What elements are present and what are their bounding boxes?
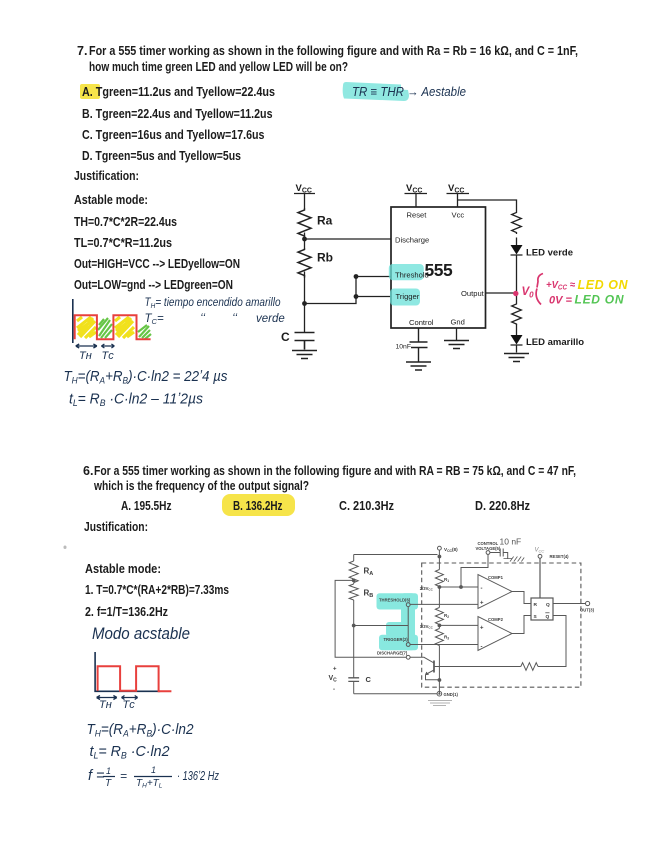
svg-text:CONTROL: CONTROL (478, 541, 499, 546)
svg-text:Q: Q (546, 614, 550, 620)
cyan highlight Trigger pin (390, 289, 420, 306)
ext wire node to tie (354, 625, 409, 627)
svg-text:TRIGGER(2): TRIGGER(2) (384, 637, 409, 642)
transistor emitter with arrow (426, 670, 435, 675)
svg-text:GND(1): GND(1) (444, 692, 459, 697)
svg-text:1: 1 (151, 765, 156, 775)
capacitor C (295, 333, 315, 350)
junction dot 2/3 (438, 585, 442, 589)
wire 2/3 node down to R2 (438, 587, 440, 608)
svg-text:TH= tiempo encendido amarillo: TH= tiempo encendido amarillo (145, 297, 282, 310)
resistor R2 (435, 608, 443, 625)
svg-text:VC: VC (329, 675, 338, 684)
svg-text:TH=(RA+RB)·C·ln2: TH=(RA+RB)·C·ln2 (87, 722, 194, 739)
Vcc supply symbol above Reset (405, 194, 428, 208)
svg-text:VCC: VCC (296, 183, 312, 195)
wire trigger (356, 296, 391, 298)
wire junction to threshold/trigger (305, 277, 357, 304)
svg-text:VCC: VCC (535, 548, 545, 554)
tiny note lines under GND (428, 701, 452, 706)
svg-text:Tс: Tс (102, 350, 115, 362)
svg-text:R3: R3 (444, 635, 449, 641)
discharge pin circle (406, 655, 410, 659)
resistor Rb (298, 248, 311, 278)
wire R1 to 2/3 node (438, 586, 440, 589)
Vcc pin circle (438, 546, 442, 550)
svg-text:Control: Control (409, 318, 434, 327)
svg-text:V0: V0 (522, 286, 535, 300)
svg-text:+: + (480, 626, 484, 632)
ground below C (292, 351, 317, 359)
svg-text:COMP1: COMP1 (488, 575, 504, 580)
wire Ra to Rb (304, 233, 306, 249)
svg-text:C: C (281, 330, 290, 344)
svg-text:THRESHOLD(6): THRESHOLD(6) (379, 597, 411, 602)
svg-text:Rb: Rb (317, 251, 333, 265)
GND pin (437, 691, 442, 696)
reset wire to FF (539, 558, 541, 598)
top rail (354, 554, 438, 556)
svg-text:10nF: 10nF (396, 344, 412, 351)
capacitor C bottom circuit (348, 678, 359, 682)
svg-text:+: + (480, 601, 484, 607)
svg-text:+VCC ≈: +VCC ≈ (546, 279, 575, 292)
printed text (77, 45, 87, 58)
wire node to C (353, 626, 355, 678)
wire resistor to base (435, 666, 521, 668)
555 IC box U1 (391, 207, 486, 328)
output node (486, 292, 517, 294)
waveform q7 TL arrow (101, 344, 114, 348)
svg-text:1: 1 (106, 766, 111, 776)
waveform q7 green scribble 1 (98, 318, 112, 338)
resistor top right (512, 211, 522, 234)
wire (353, 583, 355, 584)
Vcc supply symbol above Vcc pin (447, 194, 470, 208)
svg-text:RA: RA (364, 567, 374, 578)
svg-text:Ra: Ra (317, 214, 333, 228)
svg-text:1/3VCC: 1/3VCC (420, 624, 434, 630)
junction dot 1/3 (438, 624, 442, 628)
svg-text:VCC: VCC (406, 183, 422, 195)
resistor RA (349, 561, 358, 583)
svg-text:-: - (481, 586, 483, 592)
rail to LED branch (458, 200, 517, 211)
svg-text:Vcc: Vcc (452, 211, 465, 220)
svg-text:T: T (105, 778, 112, 789)
wire output to lower resistor (516, 293, 518, 303)
waveform q7 green scribble 2 (138, 325, 151, 339)
svg-text:LED ON: LED ON (575, 293, 624, 307)
svg-text:TR ≡ THR → Aestable: TR ≡ THR → Aestable (352, 85, 466, 99)
junction dot threshold node (352, 624, 356, 628)
svg-text:R1: R1 (444, 577, 449, 583)
resistor lower right (512, 303, 522, 325)
svg-text:Threshold: Threshold (395, 270, 429, 279)
Q output wire (553, 603, 585, 605)
wire to LED verde (516, 238, 518, 246)
svg-text:Reset: Reset (407, 211, 428, 220)
svg-text:0V =: 0V = (549, 295, 573, 307)
svg-text:Discharge: Discharge (395, 236, 429, 245)
waveform q6 TL arrow (122, 696, 138, 700)
waveform q6 TH arrow (97, 696, 117, 700)
waveform q7 yellow scribble 1 (77, 317, 96, 338)
LED verde D1 (511, 245, 523, 255)
svg-text:S: S (534, 614, 538, 620)
svg-text:+: + (333, 667, 337, 673)
svg-text:Q: Q (546, 602, 550, 608)
tie line threshold-trigger (407, 607, 409, 643)
red brace (536, 274, 543, 305)
ground below LED amarillo (504, 354, 529, 362)
svg-text:R2: R2 (444, 613, 449, 619)
wire R3 to emitter node (438, 646, 440, 694)
cyan highlight threshold-trigger path (377, 593, 419, 650)
junction dot Vcc (438, 555, 442, 559)
Vcc supply symbol left (294, 194, 315, 209)
wire to Discharge pin (305, 238, 392, 240)
threshold pin circle (406, 603, 410, 607)
waveform q7 axis (72, 299, 74, 343)
transistor collector (410, 657, 434, 663)
control cap ground hatch (504, 557, 525, 562)
control pin capacitor 10nF (410, 328, 428, 362)
yellow highlight option A (80, 84, 100, 99)
gnd pin ground (456, 328, 458, 340)
wire threshold (356, 276, 391, 278)
ground below control cap (406, 362, 431, 370)
transistor Q1 base bar (433, 661, 435, 673)
node trigger (354, 294, 359, 299)
svg-text:C: C (366, 675, 372, 684)
svg-text:LED amarillo: LED amarillo (526, 337, 584, 348)
wire R2 to 1/3 node (438, 624, 440, 627)
svg-text:2/3VCC: 2/3VCC (420, 586, 434, 592)
svg-text:=: = (120, 769, 127, 783)
svg-text:tL= RB ·C·ln2: tL= RB ·C·ln2 (90, 744, 170, 761)
junction dot RA-RB (352, 579, 356, 583)
flip-flop box (531, 598, 553, 620)
node trigger junction (302, 301, 307, 306)
svg-text:Trigger: Trigger (396, 292, 420, 301)
divider wire from Vcc dot (438, 557, 440, 570)
svg-text:TH=(RA+RB)·C·ln2 = 22ʼ4 µs: TH=(RA+RB)·C·ln2 = 22ʼ4 µs (64, 369, 228, 386)
svg-text:TC=ʻʻʻʻverde: TC=ʻʻʻʻverde (145, 313, 285, 326)
trigger pin circle (406, 643, 410, 647)
base resistor zigzag (521, 663, 538, 671)
dashed IC boundary box (422, 563, 581, 687)
Qbar wire to base resistor (538, 616, 566, 667)
wire pin to rail dot (438, 550, 440, 556)
junction dot emitter node (438, 678, 442, 682)
svg-text:DISCHARGE(7): DISCHARGE(7) (377, 650, 408, 655)
svg-text:VCC: VCC (448, 183, 464, 195)
wire RA top from rail (353, 555, 355, 562)
svg-text:RB: RB (364, 589, 374, 600)
red annotation at output (513, 274, 628, 307)
resistor Ra (298, 208, 311, 239)
svg-text:Tн: Tн (99, 699, 112, 711)
svg-text:VOLTAGE(5): VOLTAGE(5) (476, 546, 501, 551)
resistor RB (349, 584, 358, 600)
node threshold (354, 274, 359, 279)
OUT pin circle (586, 601, 590, 605)
svg-text:RESET(4): RESET(4) (550, 554, 570, 559)
svg-text:Tс: Tс (123, 699, 136, 711)
wire C to rail (353, 681, 355, 693)
emitter wire to node (426, 675, 440, 680)
waveform q7 yellow scribble 2 (115, 317, 134, 338)
svg-text:LED ON: LED ON (578, 278, 629, 292)
svg-text:Tн: Tн (79, 350, 92, 362)
COMP2 triangle (478, 617, 512, 651)
wire to LED amarillo (516, 325, 518, 336)
node discharge junction (302, 237, 307, 242)
bottom rail (354, 693, 438, 695)
svg-text:tL= RB ·C·ln2 – 11ʼ2µs: tL= RB ·C·ln2 – 11ʼ2µs (69, 392, 203, 409)
svg-text:10 nF: 10 nF (500, 537, 522, 547)
wire Rb to C (304, 272, 306, 333)
svg-text:f =: f = (88, 768, 105, 784)
svg-text:COMP2: COMP2 (488, 617, 504, 622)
waveform q6 red square wave (98, 666, 172, 691)
control wire to 2/3 node (461, 554, 488, 587)
svg-text:TH+TL: TH+TL (136, 778, 163, 790)
svg-text:Gnd: Gnd (451, 318, 465, 327)
discharge link wire (335, 580, 406, 657)
stray scan mark (64, 546, 67, 550)
reset pin circle (538, 554, 542, 558)
wire RB to node (353, 600, 355, 626)
junction dot control (459, 585, 463, 589)
cyan highlight TR=THR annotation (343, 82, 409, 101)
red node dot (513, 291, 518, 296)
comp2 output wire (512, 616, 531, 634)
cyan highlight Threshold pin (389, 264, 424, 280)
yellow highlight option B q6 (222, 494, 295, 516)
control cap plates (490, 549, 508, 560)
svg-text:OUT(3): OUT(3) (580, 608, 595, 613)
wire 1/3 to COMP2 plus (439, 624, 478, 626)
svg-text:-: - (333, 687, 335, 693)
control voltage pin circle (486, 551, 490, 555)
svg-text:· 136ʼ2 Hz: · 136ʼ2 Hz (177, 768, 219, 783)
svg-text:Modo acstable: Modo acstable (92, 625, 190, 643)
svg-text:R: R (534, 602, 538, 608)
threshold wire to COMP1 (410, 603, 478, 605)
waveform q6 axis (95, 652, 160, 691)
waveform q7 TH arrow (76, 344, 97, 348)
svg-text:LED verde: LED verde (526, 248, 573, 259)
svg-text:Output: Output (461, 289, 485, 298)
wire 2/3 to COMP1 minus (439, 586, 478, 588)
svg-text:-: - (481, 645, 483, 651)
svg-text:VCC(8): VCC(8) (444, 547, 458, 553)
wire 1/3 down to R3 (438, 625, 440, 628)
resistor R1 (435, 570, 443, 587)
LED amarillo D2 (511, 335, 523, 345)
trigger wire to COMP2 (410, 644, 478, 646)
comp1 output wire (512, 592, 531, 604)
resistor R3 (435, 629, 443, 646)
COMP1 triangle (478, 575, 512, 609)
waveform q7 red square wave (75, 315, 151, 339)
